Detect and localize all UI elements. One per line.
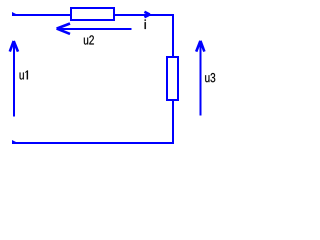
voltage arrow u2 (shaft) <box>57 28 132 30</box>
voltage arrow u2 (head) <box>57 24 70 34</box>
label u1 <box>20 70 28 79</box>
wire bottom horizontal segment <box>12 142 174 144</box>
wire top-left horizontal segment <box>12 14 71 16</box>
voltage arrow u3 (head) <box>196 41 204 52</box>
label u2 <box>84 35 94 44</box>
current arrow i (arrowhead on top wire) <box>144 12 149 17</box>
wire right vertical segment (bottom) <box>172 100 174 143</box>
label i <box>145 19 146 29</box>
voltage arrow u1 (head) <box>10 41 18 52</box>
resistor R1 (top, horizontal) <box>71 8 114 20</box>
label u3 <box>205 73 215 82</box>
tick at bottom-left wire start <box>12 140 16 142</box>
voltage arrow u3 (shaft) <box>200 42 202 116</box>
wire right vertical segment (top) <box>172 14 174 57</box>
resistor R2 (right, vertical) <box>167 57 178 100</box>
wire top-right horizontal segment <box>115 14 174 16</box>
voltage arrow u1 (shaft) <box>13 42 15 117</box>
tick at top-left wire start <box>12 12 16 14</box>
